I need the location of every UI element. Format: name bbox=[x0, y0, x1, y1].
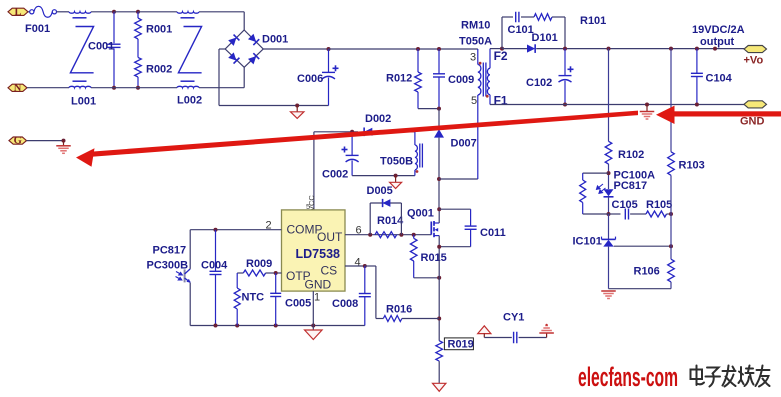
svg-text:3: 3 bbox=[470, 52, 476, 64]
negative rail wire bbox=[219, 105, 329, 107]
svg-text:PC300B: PC300B bbox=[147, 260, 189, 272]
transformer phase dots bbox=[479, 62, 482, 65]
wire G to earth bbox=[27, 140, 64, 142]
svg-text:T050B: T050B bbox=[380, 156, 413, 168]
svg-text:C009: C009 bbox=[448, 74, 474, 86]
diode D005 bypass branch bbox=[369, 203, 371, 235]
resistor R015 (gate-source) bbox=[413, 235, 415, 239]
node C009 top bbox=[437, 47, 441, 51]
svg-text:CY1: CY1 bbox=[503, 312, 524, 324]
node GND pin rail bbox=[311, 324, 315, 328]
node C001 top bbox=[112, 10, 116, 14]
node C001 bottom bbox=[112, 86, 116, 90]
L002 core marks bottom bbox=[181, 80, 195, 82]
connector GND bbox=[744, 101, 767, 108]
node C002 top bbox=[350, 130, 354, 134]
label R019 (boxed) bbox=[444, 338, 473, 350]
node D005 left bbox=[368, 233, 372, 237]
primary ground symbol (IC) bbox=[305, 330, 323, 340]
capacitor C101 bbox=[515, 12, 517, 23]
svg-text:D007: D007 bbox=[451, 138, 477, 150]
svg-text:C101: C101 bbox=[508, 24, 534, 36]
node LED bottom bbox=[607, 212, 611, 216]
wire L002 to bridge top bbox=[199, 11, 244, 13]
capacitor C102 (output, polarized) bbox=[564, 49, 566, 76]
optocoupler PC100A LED bbox=[604, 189, 614, 196]
resistor R105 bbox=[630, 213, 646, 215]
node LED top bbox=[607, 171, 611, 175]
svg-text:R019: R019 bbox=[448, 339, 474, 351]
source wire bbox=[438, 236, 440, 341]
optocoupler phototransistor Q (PC300B) bbox=[184, 269, 186, 282]
wire collector to COMP bbox=[189, 230, 191, 269]
watermark chinese glyphs bbox=[691, 366, 770, 387]
output rail wire bbox=[536, 48, 744, 50]
svg-text:R103: R103 bbox=[679, 160, 705, 172]
svg-text:D002: D002 bbox=[365, 113, 391, 125]
svg-text:R101: R101 bbox=[580, 15, 606, 27]
wire emitter to bottom rail bbox=[189, 283, 191, 326]
node snubber return bbox=[563, 47, 567, 51]
drain wire bbox=[438, 209, 440, 223]
node C104 bottom bbox=[695, 103, 699, 107]
node R002 bottom bbox=[136, 86, 140, 90]
earth ground symbol (CY1) bbox=[546, 333, 548, 337]
wire secondary top to F2 node bbox=[490, 48, 502, 50]
capacitor CY1 bbox=[484, 337, 512, 339]
svg-text:1: 1 bbox=[314, 292, 320, 304]
aux bottom wire bbox=[352, 175, 415, 177]
node OTP / C005 bbox=[274, 271, 278, 275]
earth ground symbol (input) bbox=[63, 141, 65, 146]
resistor R014 bbox=[375, 232, 397, 238]
OUT pin wire bbox=[345, 234, 431, 236]
diode D002 bbox=[364, 127, 372, 136]
resistor R101 bbox=[534, 14, 552, 21]
wire D007 to drain node bbox=[438, 138, 440, 210]
svg-text:R105: R105 bbox=[646, 199, 672, 211]
primary ground symbol (bridge) bbox=[296, 106, 298, 112]
svg-text:C008: C008 bbox=[332, 298, 358, 310]
shunt regulator IC101 bbox=[608, 214, 610, 239]
svg-text:IC101: IC101 bbox=[573, 236, 602, 248]
L001 core marks top bbox=[73, 17, 87, 19]
svg-text:R009: R009 bbox=[246, 258, 272, 270]
node R001 top bbox=[136, 10, 140, 14]
aux winding T050B bbox=[414, 132, 416, 145]
node R012 top bbox=[416, 47, 420, 51]
fuse F001 bbox=[30, 10, 34, 14]
choke L002 bottom winding bbox=[177, 86, 199, 87]
svg-text:C104: C104 bbox=[706, 73, 733, 85]
node aux ground bbox=[394, 174, 398, 178]
aux top wire bbox=[314, 131, 358, 133]
node D005 right bbox=[399, 233, 403, 237]
node divider bbox=[669, 244, 673, 248]
svg-text:R002: R002 bbox=[146, 64, 172, 76]
connector L (AC line input) bbox=[8, 8, 28, 15]
node C006 top bbox=[327, 47, 331, 51]
svg-text:C011: C011 bbox=[480, 227, 506, 239]
choke L001 top winding bbox=[69, 12, 91, 13]
node F2 bbox=[500, 47, 504, 51]
svg-text:GND: GND bbox=[305, 278, 332, 292]
light arrows into transistor bbox=[176, 272, 183, 280]
svg-text:LD7538: LD7538 bbox=[296, 247, 341, 261]
resistor R106 bbox=[670, 246, 672, 259]
svg-text:GND: GND bbox=[740, 116, 765, 128]
resistor R019 (sense) bbox=[436, 341, 443, 361]
op-amp U1 LD7538 controller IC bbox=[282, 210, 346, 291]
resistor R103 bbox=[670, 49, 672, 152]
resistor R016 (CS filter) bbox=[376, 318, 383, 320]
node C011 return bbox=[437, 245, 441, 249]
T050B core bbox=[419, 144, 421, 168]
transformer primary winding bbox=[477, 49, 479, 65]
svg-text:L002: L002 bbox=[177, 95, 202, 107]
IC GND pin wire bbox=[312, 291, 314, 330]
connector +Vo bbox=[744, 46, 767, 53]
svg-text:R106: R106 bbox=[634, 266, 660, 278]
wire N to L001 bbox=[27, 87, 69, 89]
capacitor C005 bbox=[275, 273, 277, 293]
svg-text:VCC: VCC bbox=[307, 195, 316, 211]
node NTC bottom bbox=[235, 324, 239, 328]
capacitor C004 bbox=[215, 230, 217, 272]
svg-text:C105: C105 bbox=[612, 199, 638, 211]
snubber capacitor C011 bbox=[439, 208, 470, 210]
wire bridge left corner to negative rail bbox=[219, 48, 225, 50]
connector G (earth input) bbox=[9, 137, 27, 144]
diode D007 (clamp) bbox=[438, 109, 440, 126]
svg-text:RM10: RM10 bbox=[461, 20, 490, 32]
node clamp bbox=[437, 107, 441, 111]
secondary bottom rail F1 to GND connector bbox=[490, 104, 744, 106]
svg-text:F1: F1 bbox=[494, 94, 508, 108]
svg-text:Q001: Q001 bbox=[407, 208, 434, 220]
svg-text:T050A: T050A bbox=[459, 36, 492, 48]
resistor R001 bbox=[137, 12, 139, 18]
thermistor NTC bbox=[236, 273, 238, 288]
node C102 bottom bbox=[563, 103, 567, 107]
node R105 right bbox=[669, 212, 673, 216]
svg-text:R015: R015 bbox=[421, 252, 447, 264]
svg-text:C005: C005 bbox=[285, 298, 311, 310]
svg-text:L001: L001 bbox=[71, 96, 96, 108]
wire fuse to L001 bbox=[57, 11, 70, 13]
resistor parallel to LED bbox=[583, 172, 609, 174]
node primary pin5 join bbox=[437, 177, 441, 181]
snubber resistor R012 bbox=[417, 49, 419, 72]
node C104 top bbox=[695, 47, 699, 51]
svg-text:NTC: NTC bbox=[242, 292, 265, 304]
svg-text:D001: D001 bbox=[262, 34, 288, 46]
node R103 top bbox=[669, 47, 673, 51]
svg-text:C001: C001 bbox=[88, 41, 114, 53]
secondary earth ground (feedback) bbox=[601, 290, 616, 292]
resistor R009 bbox=[237, 272, 243, 274]
capacitor C006 (bulk, polarized) bbox=[328, 49, 330, 72]
snubber capacitor C009 bbox=[438, 49, 440, 74]
svg-text:elecfans-com: elecfans-com bbox=[578, 362, 678, 392]
svg-text:F001: F001 bbox=[25, 23, 50, 35]
svg-text:F2: F2 bbox=[494, 49, 508, 63]
wire L to fuse bbox=[28, 11, 30, 13]
capacitor C008 bbox=[364, 266, 366, 294]
svg-text:N: N bbox=[14, 83, 22, 94]
svg-text:C006: C006 bbox=[297, 73, 323, 85]
svg-text:PC817: PC817 bbox=[153, 245, 187, 257]
CS pin wire bbox=[345, 265, 365, 267]
capacitor C002 (polarized) bbox=[351, 132, 353, 156]
diode D101 bbox=[502, 48, 527, 50]
node R016 right bbox=[437, 317, 441, 321]
node CS bbox=[363, 264, 367, 268]
primary ground symbol (sense) bbox=[433, 383, 446, 391]
node earth bbox=[645, 103, 649, 107]
node source/R015 bbox=[437, 276, 441, 280]
node primary ground bbox=[295, 104, 299, 108]
primary ground symbol (aux) bbox=[395, 176, 397, 183]
node C004 top bbox=[214, 228, 218, 232]
svg-text:4: 4 bbox=[355, 257, 361, 269]
wire R012 bottom to clamp node bbox=[418, 108, 439, 110]
L001 core marks bottom bbox=[73, 80, 87, 82]
svg-text:G: G bbox=[14, 136, 22, 147]
secondary earth ground bbox=[646, 105, 648, 112]
wire L002 to bridge bottom bbox=[199, 87, 244, 89]
resistor R002 bbox=[135, 57, 142, 77]
connector N (AC neutral input) bbox=[8, 84, 27, 91]
node C004 bottom bbox=[214, 324, 218, 328]
node R102 top bbox=[607, 47, 611, 51]
resistor R102 branch bbox=[608, 49, 610, 142]
node output bbox=[713, 47, 717, 51]
wire top rail L001 to C001 bbox=[91, 11, 114, 13]
node R015 top bbox=[412, 233, 416, 237]
node G earth bbox=[62, 139, 66, 143]
node drain bbox=[437, 207, 441, 211]
L001 core Z mark bbox=[70, 27, 93, 73]
wire L001 to L002 bottom rail bbox=[91, 87, 177, 89]
wire R106 return bbox=[609, 288, 672, 290]
svg-text:19VDC/2A: 19VDC/2A bbox=[692, 24, 745, 36]
capacitor C105 bbox=[609, 213, 621, 215]
snubber branch C101/R101 bbox=[501, 17, 503, 49]
svg-text:R012: R012 bbox=[386, 73, 412, 85]
L002 core Z mark bbox=[178, 27, 201, 73]
wire R001 to R002 bbox=[137, 39, 139, 57]
svg-text:PC817: PC817 bbox=[614, 180, 648, 192]
VCC wire to IC bbox=[313, 132, 315, 210]
svg-text:L: L bbox=[14, 7, 21, 18]
choke L001 bottom winding bbox=[69, 86, 91, 87]
bottom rail (secondary-side of IC) bbox=[190, 325, 365, 327]
svg-text:R001: R001 bbox=[146, 24, 172, 36]
svg-text:R016: R016 bbox=[386, 304, 412, 316]
svg-text:D101: D101 bbox=[532, 32, 558, 44]
capacitor C104 bbox=[696, 49, 698, 74]
primary ground symbol (CY1, up) bbox=[478, 326, 491, 334]
svg-text:R014: R014 bbox=[377, 215, 404, 227]
wire top rail C001 to R001 bbox=[114, 11, 138, 13]
bridge rectifier D001 bbox=[225, 30, 263, 67]
transformer secondary winding bbox=[489, 49, 491, 69]
node C005 bottom bbox=[274, 324, 278, 328]
svg-text:C002: C002 bbox=[322, 169, 348, 181]
short red annotation arrow (GND) bbox=[672, 111, 781, 116]
svg-text:D005: D005 bbox=[367, 185, 393, 197]
long red annotation arrow bbox=[90, 111, 638, 157]
T050B phase dot bbox=[416, 170, 419, 173]
svg-text:CS: CS bbox=[321, 264, 338, 278]
wire top rail R001 to L002 bbox=[138, 11, 177, 13]
choke L002 top winding bbox=[177, 12, 199, 13]
L002 core marks top bbox=[181, 17, 195, 19]
wire IC101 ref to divider bbox=[614, 245, 671, 247]
svg-text:output: output bbox=[700, 36, 735, 48]
svg-text:C102: C102 bbox=[526, 77, 552, 89]
top rail C006 to transformer bbox=[329, 48, 478, 50]
transformer core bbox=[482, 63, 484, 97]
svg-text:R102: R102 bbox=[618, 149, 644, 161]
svg-text:+Vo: +Vo bbox=[744, 55, 764, 67]
LED emission arrows bbox=[597, 184, 606, 193]
svg-text:C004: C004 bbox=[201, 260, 228, 272]
svg-text:5: 5 bbox=[471, 95, 477, 107]
wire pin5 horizontal bbox=[439, 178, 478, 180]
capacitor C001 bbox=[113, 12, 115, 43]
svg-text:OUT: OUT bbox=[317, 230, 343, 244]
wire bridge right corner to top rail bbox=[263, 48, 328, 50]
